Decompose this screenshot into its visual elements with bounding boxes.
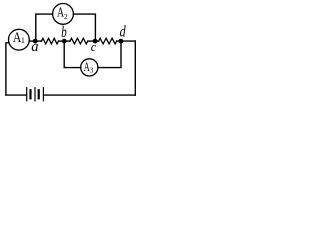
label A3 inside ammeter A3 <box>84 60 90 74</box>
battery B1 <box>27 88 44 101</box>
wire: top branch left vertical from node a <box>36 14 53 41</box>
svg-text:2: 2 <box>64 12 68 21</box>
svg-text:d: d <box>120 24 126 41</box>
svg-text:1: 1 <box>21 36 25 45</box>
label A2 inside ammeter A2 <box>57 4 64 20</box>
node c junction dot <box>93 39 98 44</box>
svg-text:a: a <box>31 39 38 55</box>
node a junction dot <box>33 39 38 44</box>
node b junction dot <box>62 39 67 44</box>
ammeter A3 <box>81 59 98 76</box>
resistor R2 (between b and c) <box>70 38 88 44</box>
label A1 inside ammeter A1 <box>13 29 22 46</box>
wire: main line segment R2 to R3 through node c <box>88 40 99 42</box>
wire: bottom branch right segment and vertical up to node d <box>98 41 121 68</box>
wire: main line segment A1 to resistor R1 <box>29 40 41 42</box>
wire: right rail up to main line <box>134 41 136 95</box>
node d junction dot <box>119 39 124 44</box>
wire: bottom rail left segment to battery <box>6 94 26 96</box>
svg-text:b: b <box>61 23 67 41</box>
resistor R1 (between a and b) <box>42 38 59 44</box>
wire: main line segment R1 to R2 through node b <box>59 40 71 42</box>
label node d <box>120 24 126 41</box>
resistor R3 (between c and d) <box>99 38 117 44</box>
ammeter A1 <box>9 29 30 50</box>
label node b <box>61 23 67 41</box>
ammeter A2 <box>53 4 74 25</box>
wire: main line segment R3 to right rail through node d <box>117 40 136 42</box>
svg-text:3: 3 <box>90 66 94 74</box>
wire: bottom branch left vertical from node b <box>64 41 81 68</box>
wire: left rail from A1 down to bottom rail <box>6 43 9 95</box>
wire: bottom rail right segment from battery to right rail <box>44 94 136 96</box>
svg-text:c: c <box>91 40 97 54</box>
wire: top branch right segment and vertical down to node c <box>73 14 95 41</box>
